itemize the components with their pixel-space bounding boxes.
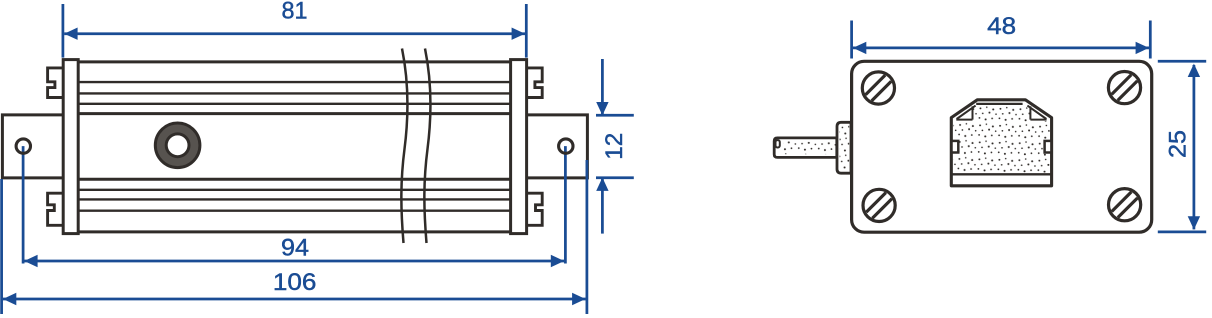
svg-text:25: 25 [1165,130,1192,158]
arrow 94 left [24,255,37,267]
dim 12 line upper [601,59,604,114]
left shoulder line [956,119,972,121]
collar [837,122,851,173]
shaft [774,138,837,158]
dim 94 line [24,260,564,263]
body plate outline [852,61,1152,232]
svg-text:106: 106 [273,269,317,296]
dim 25 ext bottom [1158,231,1206,234]
break line right [424,49,430,244]
body bottom edge [77,230,512,233]
dim 25 line [1193,65,1196,229]
body top edge [77,60,512,63]
arrow 12 up [596,178,608,191]
left flange hole [15,138,32,155]
svg-text:81: 81 [282,0,308,24]
dim 25 ext top [1158,60,1206,63]
profile line t1 [78,81,510,83]
connector bottom band line [951,173,1051,175]
profile line t3 [78,103,510,105]
arrow 48 left [853,42,866,54]
svg-text:48: 48 [987,13,1016,40]
arrow 48 right [1136,42,1149,54]
screw bottom-right [1109,189,1141,221]
left inner chamfer [957,106,976,119]
connector stipple area [953,105,1049,172]
svg-text:12: 12 [601,133,628,160]
arrow 25 up [1188,64,1200,77]
screw top-right [1108,72,1140,104]
connector outer outline [951,100,1051,186]
arrow 94 right [551,255,564,267]
profile line b1 (mid band bottom) [78,178,510,181]
body plate fill [852,61,1152,232]
dim 48 line [853,47,1149,50]
dim 81 line [64,32,525,35]
clip tab top-right [527,68,543,98]
arrow 106 right [572,293,585,305]
left flange [2,115,63,178]
extension line 94 right (through hole) [564,146,567,263]
arrow 81 left [64,28,77,40]
connector inner lines [956,104,1046,120]
knob center hole [166,134,189,157]
dim 12 line lower [601,179,604,234]
right inner vertical [1029,106,1031,119]
arrow 25 down [1188,216,1200,229]
dim 106 line [3,298,586,301]
left inner vertical [972,106,974,119]
left latch notch [952,141,959,153]
clip tab top-left [48,68,64,98]
arrow 12 down [596,102,608,115]
body main outline [77,62,512,232]
shaft stipple [783,141,836,154]
tab inner line [976,103,1022,105]
dim 106 extension right [586,160,589,314]
right inner chamfer [1027,106,1046,119]
clip tab bottom-right [527,193,543,225]
right latch notch [1045,141,1052,153]
shaft tip slot [776,140,780,147]
screw bottom-left [863,189,895,221]
profile line t2 [78,92,510,94]
profile line b4 [78,209,510,211]
clip tab bottom-left [48,193,64,225]
extension line 94 left (through hole) [22,146,25,263]
profile line b3 [78,198,510,200]
profile line b2 [78,189,510,191]
right flange [527,115,588,178]
profile line t4 (mid band top) [78,112,510,115]
right end cap [511,60,527,234]
knob outer ring [155,123,200,168]
dim 81 extension left [62,4,65,58]
arrow 106 left [3,293,16,305]
dim 12 ext top [596,114,634,117]
dim 81 extension right [525,4,528,58]
right flange hole [557,138,574,155]
screw top-left [862,72,894,104]
break line left [401,49,407,244]
collar stipple [840,125,850,170]
connector (RJ45 jack) [951,100,1051,186]
dim 106 extension left [0,179,3,314]
dim 48 extension right [1149,21,1152,59]
knob on body [155,123,200,168]
svg-text:94: 94 [281,235,309,262]
arrow 81 right [512,28,525,40]
dim 48 extension left [850,21,853,59]
left end cap [63,60,78,234]
right shoulder line [1030,119,1046,121]
dim 12 ext bottom [596,176,634,179]
